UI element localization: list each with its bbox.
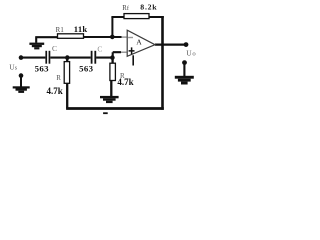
svg-text:C: C xyxy=(52,44,57,53)
svg-text:4.7k: 4.7k xyxy=(47,86,63,96)
svg-text:C: C xyxy=(97,44,102,53)
svg-text:563: 563 xyxy=(79,63,93,73)
svg-text:A: A xyxy=(136,37,142,46)
svg-text:563: 563 xyxy=(35,63,49,73)
svg-text:11k: 11k xyxy=(74,24,88,34)
svg-text:R1: R1 xyxy=(56,27,64,34)
svg-text:R: R xyxy=(56,74,61,82)
svg-text:8.2k: 8.2k xyxy=(140,2,157,11)
svg-text:4.7k: 4.7k xyxy=(117,77,133,87)
svg-text:U: U xyxy=(186,49,192,58)
